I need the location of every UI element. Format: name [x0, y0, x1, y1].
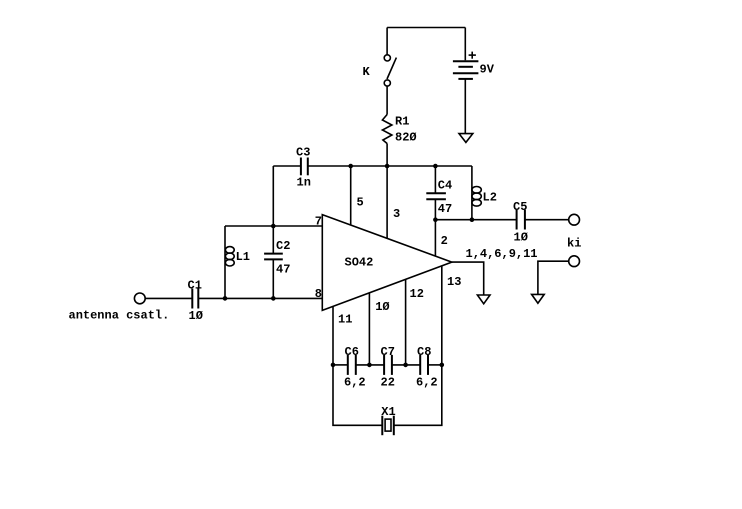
crystal X1: [381, 416, 383, 436]
switch K blade: [387, 58, 396, 79]
node C2/pin8: [271, 296, 276, 301]
svg-text:ki: ki: [567, 237, 581, 251]
svg-text:1n: 1n: [297, 176, 311, 190]
wire pin 13: [441, 266, 443, 365]
node pin10: [367, 363, 372, 368]
svg-text:9V: 9V: [480, 63, 495, 77]
node L1/pin8: [223, 296, 228, 301]
svg-text:47: 47: [438, 202, 452, 216]
wire C5 to ki terminal: [525, 219, 569, 221]
capacitor C1: [191, 289, 193, 309]
svg-text:X1: X1: [381, 405, 395, 419]
wire ki bottom to ground: [538, 261, 569, 294]
resistor R1: [382, 115, 392, 144]
svg-text:R1: R1: [395, 115, 409, 129]
wire main supply rail: [273, 165, 301, 167]
svg-text:82Ø: 82Ø: [395, 131, 417, 145]
terminal ki top: [569, 214, 580, 225]
battery plus sign: [469, 54, 476, 56]
node pin11: [331, 363, 336, 368]
wire pin 5: [350, 166, 352, 225]
ground (ki): [532, 294, 545, 303]
node pin13: [440, 363, 445, 368]
switch K bottom contact: [384, 80, 390, 86]
svg-text:6,2: 6,2: [416, 376, 438, 390]
svg-text:C3: C3: [296, 146, 310, 160]
svg-text:SO42: SO42: [345, 256, 374, 270]
wire battery top lead: [464, 28, 466, 61]
svg-text:C5: C5: [513, 200, 527, 214]
wire R1 to rail: [386, 144, 388, 167]
ground (pins 1,4,6,9,11): [477, 295, 490, 304]
wire top rail between switch and battery: [387, 27, 465, 29]
wire pin 10: [368, 293, 370, 365]
capacitor C7: [383, 355, 385, 375]
svg-text:47: 47: [276, 263, 290, 277]
svg-text:22: 22: [381, 376, 395, 390]
svg-text:6,2: 6,2: [344, 376, 366, 390]
node rail/pin5: [348, 164, 353, 169]
switch K top contact: [384, 55, 390, 61]
capacitor C3: [300, 158, 302, 176]
svg-text:1Ø: 1Ø: [375, 300, 389, 314]
wire C3 left drop / C2 branch: [272, 166, 274, 254]
wire X1 left leg: [333, 365, 382, 425]
capacitor C6: [347, 355, 349, 375]
antenna terminal: [134, 293, 145, 304]
terminal ki bottom: [569, 256, 580, 267]
svg-text:1,4,6,9,11: 1,4,6,9,11: [466, 247, 538, 261]
battery 9V: [453, 60, 479, 62]
svg-text:C1: C1: [188, 279, 202, 293]
svg-text:C7: C7: [381, 345, 395, 359]
svg-text:12: 12: [410, 287, 424, 301]
wire pin 12: [405, 279, 407, 365]
inductor L1: [224, 226, 226, 298]
svg-text:K: K: [363, 65, 371, 79]
wire pin 2: [434, 220, 436, 256]
wire pin 8: [198, 297, 322, 299]
svg-text:C6: C6: [345, 345, 359, 359]
node pin7/C2: [271, 224, 276, 229]
svg-text:2: 2: [441, 234, 448, 248]
svg-text:11: 11: [338, 313, 352, 327]
wire pin 11: [332, 306, 334, 365]
svg-text:1Ø: 1Ø: [189, 309, 203, 323]
wire pin 3: [386, 166, 388, 239]
svg-text:13: 13: [447, 275, 461, 289]
inductor L2: [471, 166, 473, 220]
wire antenna to C1: [145, 297, 192, 299]
svg-text:3: 3: [393, 207, 400, 221]
wire pin 7: [225, 225, 322, 227]
wire switch to R1: [386, 86, 388, 114]
wire battery to ground: [464, 79, 466, 134]
node C4/out: [433, 217, 438, 222]
wire X1 right leg: [394, 365, 442, 425]
wire bottom capacitor rail: [333, 364, 348, 366]
node rail/C4: [433, 164, 438, 169]
svg-text:C8: C8: [417, 345, 431, 359]
svg-text:5: 5: [357, 196, 364, 210]
capacitor C4: [434, 166, 436, 193]
ground (battery): [459, 134, 473, 143]
wire pins 1,4,6,9,11 to ground: [452, 262, 484, 295]
op-amp U1 S042 triangle: [322, 215, 452, 311]
svg-text:7: 7: [315, 215, 322, 229]
capacitor C2: [264, 253, 283, 255]
capacitor C5: [516, 210, 518, 230]
capacitor C8: [419, 355, 421, 375]
wire pin2/output net: [435, 219, 516, 221]
node rail/R1: [385, 164, 390, 169]
svg-text:8: 8: [315, 287, 322, 301]
svg-text:L1: L1: [236, 250, 250, 264]
svg-text:antenna csatl.: antenna csatl.: [69, 309, 170, 323]
svg-text:C4: C4: [438, 179, 452, 193]
node L2/out: [470, 217, 475, 222]
svg-text:L2: L2: [483, 191, 497, 205]
svg-text:C2: C2: [276, 239, 290, 253]
wire switch top lead: [386, 28, 388, 55]
svg-text:1Ø: 1Ø: [514, 231, 528, 245]
node pin12: [403, 363, 408, 368]
